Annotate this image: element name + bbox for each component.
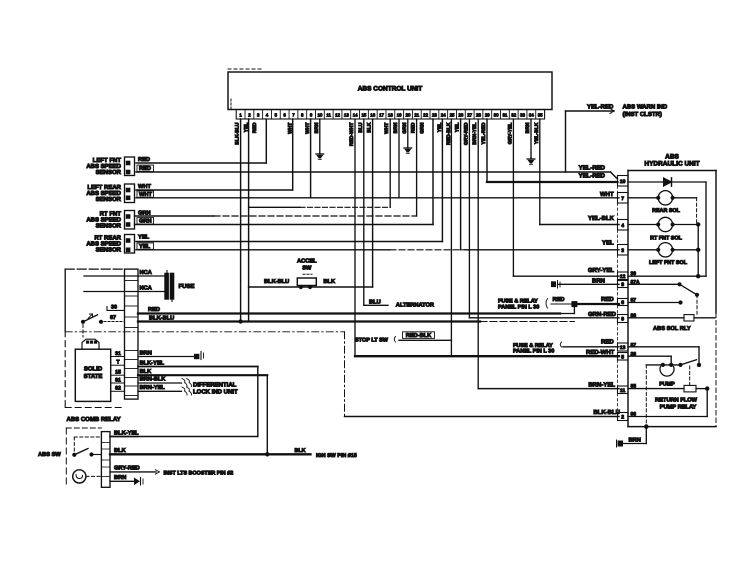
svg-text:YEL-RED: YEL-RED [579,173,606,180]
svg-text:BLK-BLU: BLK-BLU [593,409,620,416]
hydraulic pin 9 [618,315,629,323]
svg-text:RED: RED [601,339,614,346]
wire pin2 vertical down to BLK-BLU bus via accel [248,119,250,322]
ground pin20 [407,119,409,147]
svg-text:REAR SOL: REAR SOL [652,208,681,214]
svg-text:GRY-RED: GRY-RED [463,122,469,145]
abs sol relay coil [628,317,684,319]
abs warning lamp [73,470,86,483]
svg-text:87: 87 [110,315,116,321]
svg-text:BRN-BLK: BRN-BLK [140,376,167,382]
pump relay feed 30 [628,355,671,357]
svg-text:17: 17 [379,113,384,118]
hydraulic pin 4 [618,220,629,231]
svg-text:BRN: BRN [140,350,152,356]
wire pin28 BRN-YEL vertical [477,119,479,389]
svg-text:82: 82 [115,386,121,392]
svg-text:BLK-BLU: BLK-BLU [264,279,289,285]
svg-text:12: 12 [335,113,340,118]
svg-text:13: 13 [344,113,349,118]
svg-text:BLU: BLU [358,122,364,133]
rt fnt solenoid [628,224,658,226]
diode vertical to junction [705,182,707,276]
wire BLK-BLU to hydraulic pin2 [344,332,346,417]
wire BRN-YEL 82 to diff lock [138,390,182,392]
svg-text:YEL-RED: YEL-RED [587,103,614,110]
wire BRN-YEL to hydraulic pin11 [478,388,619,390]
wire BRN 87A with connector [552,282,556,287]
wire pin1 BLK-BLU vertical [240,119,242,322]
diode line pin10 [628,181,664,183]
hydraulic pin 7 [618,193,629,204]
svg-text:BLK: BLK [140,369,153,375]
svg-text:10: 10 [317,113,322,118]
svg-text:STATE: STATE [84,373,103,380]
svg-text:NCA: NCA [140,270,152,276]
solid state transistor bump [82,339,99,349]
svg-text:BLU: BLU [369,299,381,305]
solid state pin stubs [111,356,125,358]
svg-text:YEL-BLK: YEL-BLK [588,215,615,222]
svg-text:20: 20 [406,113,411,118]
solenoid bus vertical [697,225,699,277]
svg-text:BLK: BLK [295,448,306,454]
svg-text:GRY-RED: GRY-RED [114,465,140,471]
wire YEL2 sensor4 long to hydraulic pin3, tap pin26 [136,249,390,251]
svg-text:STOP LT SW: STOP LT SW [355,338,389,344]
svg-text:27: 27 [467,113,472,118]
svg-text:7: 7 [621,196,624,202]
svg-text:87: 87 [631,343,637,349]
svg-text:32: 32 [511,113,516,118]
wire RED to hydraulic pin6 87 thick [551,303,574,305]
control unit dashed corner stub [230,99,232,110]
comb relay connector strip [125,269,139,399]
wire BLK 15 to ign junction [138,374,267,376]
svg-text:22: 22 [423,113,428,118]
svg-text:21: 21 [414,113,419,118]
svg-text:RT FNT: RT FNT [100,211,122,218]
svg-text:ABS COMB RELAY: ABS COMB RELAY [67,416,121,423]
hydraulic pin strip dashed links [617,186,619,193]
svg-text:ABS SPEED: ABS SPEED [86,190,121,197]
svg-text:35: 35 [538,113,543,118]
svg-text:SW: SW [302,266,312,272]
svg-text:23: 23 [432,113,437,118]
hydraulic pin 2 [618,413,629,421]
svg-text:RETURN FLOW: RETURN FLOW [655,397,698,403]
svg-text:RT FNT SOL: RT FNT SOL [650,236,682,242]
blk-blu bus from comb relay 87 thick [138,320,480,322]
abs comb relay strip [101,432,110,488]
svg-text:25: 25 [450,113,455,118]
hydraulic pin 6 [618,299,629,306]
label RED-BLK boxed [403,332,435,339]
left rear wire label WHT boxed [137,191,154,197]
wire WHT2 sensor2 long to hydraulic pin7, tap pin9 [136,197,619,199]
wire WHT pin18 to mid line [389,119,391,207]
wire NCA 1 to fuse [84,275,165,277]
svg-text:WHT: WHT [138,184,151,190]
svg-text:BLK-YEL: BLK-YEL [140,360,165,366]
comb relay switch [81,320,85,324]
svg-text:9: 9 [621,317,624,323]
svg-text:GRN: GRN [402,122,408,134]
hydraulic pin 12 [618,272,629,280]
dashed enclosure line left [65,331,344,333]
pump motor [660,367,674,377]
svg-text:RED: RED [411,122,417,133]
svg-text:2: 2 [621,415,624,421]
svg-text:BRN-YEL: BRN-YEL [140,385,166,391]
svg-text:GRN-RED: GRN-RED [588,311,617,318]
diff lock braces [182,379,192,387]
svg-text:12: 12 [620,274,626,280]
abs sw switch [72,453,76,457]
svg-text:SENSOR: SENSOR [96,223,122,230]
ground pin34 [530,119,532,158]
wire RED sensor1 to pin4 [136,162,266,164]
pin 30 stub [107,309,125,311]
hydraulic pin 8 [618,281,629,288]
svg-text:GRN: GRN [419,122,425,134]
svg-text:ALTERNATOR: ALTERNATOR [396,303,434,309]
svg-text:ABS SW: ABS SW [38,452,61,458]
svg-text:26: 26 [458,113,463,118]
wire accel switch BLK-BLU / BLK [249,286,373,288]
svg-text:34: 34 [529,113,534,118]
wire GRN sensor3 to pin21 part dashed [135,215,215,217]
svg-text:11: 11 [620,388,626,394]
svg-text:GRY-YEL: GRY-YEL [588,267,614,274]
svg-text:RED: RED [148,307,160,313]
svg-text:YEL-RED: YEL-RED [481,122,487,144]
svg-text:BRN-YEL: BRN-YEL [472,123,478,145]
pump relay coil link dashed [689,366,691,387]
hydraulic pin 3 [618,245,629,256]
hydraulic pin 10 [618,176,629,187]
svg-text:LEFT REAR: LEFT REAR [87,184,121,191]
svg-text:LEFT FNT: LEFT FNT [93,157,122,164]
left fnt wire label RED boxed [137,165,154,171]
rt rear sensor connector [125,235,135,254]
svg-text:14: 14 [353,113,358,118]
accel switch symbol [297,278,316,286]
svg-text:10: 10 [620,179,626,185]
svg-text:BRN-YEL: BRN-YEL [588,382,615,389]
svg-text:19: 19 [397,113,402,118]
svg-text:LOCK IND UNIT: LOCK IND UNIT [193,389,238,396]
svg-text:30: 30 [494,113,499,118]
svg-text:ABS: ABS [665,154,679,161]
rt rear wire label YEL boxed [137,243,154,249]
wire GRY-RED to inst lts booster [110,471,156,473]
svg-text:13: 13 [620,345,626,351]
svg-text:RED: RED [553,297,565,303]
wire RED to hydraulic pin13 87 [563,346,619,348]
junction square fuse relay feed [572,302,577,307]
hydraulic pin 13 [618,343,629,351]
wire WHT pin19 tap [398,119,400,198]
svg-text:24: 24 [441,113,446,118]
wire NCA 2 to fuse [84,291,165,293]
wire BRN-BLK 81 to diff lock [138,382,182,384]
wire GRY-YEL pin32 to hydraulic pin12 [512,119,514,276]
svg-text:INST LTS BOOSTER PIN #2: INST LTS BOOSTER PIN #2 [164,471,234,477]
svg-text:GRY-YEL: GRY-YEL [507,123,513,145]
svg-text:BRN: BRN [592,277,605,284]
rear solenoid [628,197,658,199]
svg-text:RED-BLK: RED-BLK [406,333,432,339]
svg-text:HYDRAULIC UNIT: HYDRAULIC UNIT [644,161,699,168]
svg-text:15: 15 [115,370,121,376]
svg-text:WHT: WHT [600,191,614,198]
wire WHT sensor2 to pin7 [136,189,293,191]
svg-text:FUSE: FUSE [179,283,195,290]
wire BRN hydraulic ground [645,427,647,444]
comb relay upper box [65,268,124,270]
svg-text:31: 31 [115,351,121,357]
svg-text:ABS CONTROL UNIT: ABS CONTROL UNIT [358,86,423,93]
svg-text:RED: RED [252,122,258,133]
svg-text:BRN: BRN [114,475,126,481]
wire BRN lower with connector [110,480,134,482]
pump relay coil [628,388,684,390]
wire BLK-YEL T route [138,366,258,368]
hydraulic unit box [628,170,716,172]
svg-text:(INST CLSTR): (INST CLSTR) [623,111,662,118]
left fnt sensor connector [125,157,135,176]
svg-text:81: 81 [115,377,121,383]
svg-text:15: 15 [361,113,366,118]
svg-text:18: 18 [388,113,393,118]
svg-text:BRN: BRN [629,438,641,444]
svg-text:33: 33 [520,113,525,118]
svg-text:BRN: BRN [314,122,320,133]
svg-text:3: 3 [621,248,624,254]
svg-text:YEL: YEL [455,123,461,133]
dashed link rear sol [696,198,698,225]
svg-text:11: 11 [326,113,331,118]
svg-text:SENSOR: SENSOR [96,169,122,176]
svg-text:RED-WHT: RED-WHT [349,123,355,147]
svg-text:30: 30 [111,305,117,311]
svg-text:BRN: BRN [525,122,531,133]
svg-text:PANEL PIN L 30: PANEL PIN L 30 [498,304,539,310]
svg-text:SOLID: SOLID [84,366,103,373]
svg-text:PUMP: PUMP [659,382,675,388]
red bus from comb relay 30 thick [138,312,560,314]
svg-text:RED-WHT: RED-WHT [586,349,615,356]
svg-text:SENSOR: SENSOR [96,247,122,254]
svg-text:ABS SPEED: ABS SPEED [86,217,121,224]
svg-text:ABS SPEED: ABS SPEED [86,241,121,248]
wire YEL sensor4 to pin24, tap pin2 [136,241,442,243]
control unit pin row 1-35 [236,110,544,120]
svg-text:5: 5 [621,354,624,360]
svg-text:RT REAR: RT REAR [94,235,121,242]
svg-text:BLK: BLK [323,279,336,285]
wire BRN 31 with connector [138,356,195,358]
svg-text:YEL: YEL [602,240,614,247]
wire BLK-YEL lower [110,436,138,438]
pump relay contact 87 [628,346,699,348]
wire YEL-RED to ABS warn ind [566,110,615,112]
svg-text:PANEL PIN L 30: PANEL PIN L 30 [513,349,554,355]
svg-text:DIFFERENTIAL: DIFFERENTIAL [193,382,237,389]
svg-text:16: 16 [370,113,375,118]
left rear sensor connector [125,184,135,203]
svg-text:28: 28 [476,113,481,118]
svg-text:ABS SPEED: ABS SPEED [86,163,121,170]
wire RED2 sensor1 long to hydraulic pin10 [136,171,611,173]
svg-text:LEFT FNT SOL: LEFT FNT SOL [649,260,688,266]
rt fnt wire label GRN boxed [137,218,154,224]
svg-text:YEL-BLK: YEL-BLK [534,122,540,144]
svg-text:YEL-RED: YEL-RED [579,164,606,171]
left fnt solenoid [628,249,658,251]
svg-text:BLK: BLK [114,448,127,454]
pump contact line [646,364,680,366]
switch to solid state dashes [82,325,84,338]
wire YEL-BLK pin35 to hydraulic pin4 [539,119,541,225]
wire BLK to ign sw pin 15 thick [110,453,311,455]
svg-text:29: 29 [485,113,490,118]
wire RED-BLK pin25 stop light switch [450,119,452,356]
svg-text:BLK-BLU: BLK-BLU [235,122,241,145]
svg-text:PUMP RELAY: PUMP RELAY [660,404,697,410]
svg-text:BLK: BLK [367,122,373,133]
svg-text:BLK-BLU: BLK-BLU [149,316,174,322]
fuse symbol [165,273,169,299]
svg-text:4: 4 [621,223,624,229]
wire YEL-RED upper branch to warn lamp [565,111,567,172]
hydraulic pin 5 [618,353,629,361]
solid state box [75,349,110,401]
hydraulic pin 11 [618,386,629,394]
abs comb relay dashed box [66,427,101,429]
ground pin10 [319,119,321,153]
svg-text:BLK-YEL: BLK-YEL [114,430,139,436]
rt fnt sensor connector [125,211,135,230]
wire GRN-RED pin27 to hydraulic pin9 [468,119,470,318]
svg-text:SENSOR: SENSOR [96,196,122,203]
svg-text:IGN SW PIN #15: IGN SW PIN #15 [316,453,357,459]
svg-text:ABS WARN IND: ABS WARN IND [623,104,668,111]
pump relay ground dashed [645,365,647,427]
pump relay coil return [706,389,708,417]
svg-text:YEL: YEL [138,234,150,240]
wire GRN2 sensor3 to pin23 [135,224,434,226]
wire pin12 30 line [628,275,706,277]
svg-text:31: 31 [502,113,507,118]
svg-text:6: 6 [621,300,624,306]
svg-text:BRN: BRN [393,122,399,133]
svg-text:ABS SOL RLY: ABS SOL RLY [653,326,691,332]
svg-text:WHT: WHT [384,123,390,134]
wire RED-WHT pin14 to hydraulic pin5 thick [354,119,356,356]
ABS control unit box [228,72,552,110]
svg-text:RED: RED [601,296,614,303]
svg-text:RED: RED [138,157,150,163]
svg-text:8: 8 [621,282,624,288]
pin 87 stub [104,321,125,323]
svg-text:NCA: NCA [140,285,152,291]
svg-text:ACCEL: ACCEL [297,259,317,265]
wire BLU pin15 to alternator [363,119,365,305]
abs sol relay contacts [628,283,680,285]
wire YEL-RED pin29 to hydraulic pin10 thick [486,119,488,182]
